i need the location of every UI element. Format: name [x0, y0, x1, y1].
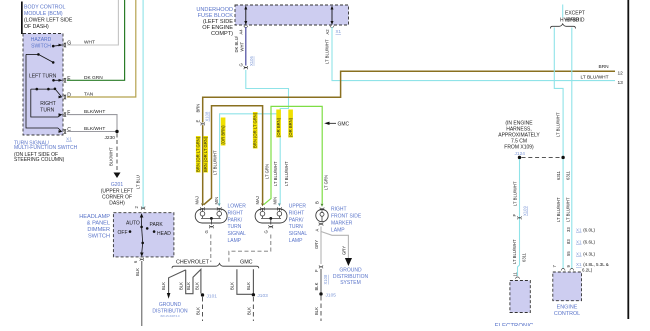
svg-text:& PANEL: & PANEL [87, 221, 110, 227]
svg-text:FRONT SIDE: FRONT SIDE [331, 214, 362, 220]
wire DK GRN from pin E [67, 0, 125, 81]
right turn contact [31, 88, 62, 114]
svg-text:J230: J230 [105, 135, 116, 141]
lamp E1 pin MIN [214, 197, 221, 211]
page border right [627, 0, 629, 319]
electronic brake control module U2 box [510, 281, 530, 313]
svg-text:WHT: WHT [84, 40, 95, 46]
svg-text:LOWER: LOWER [228, 204, 247, 210]
svg-text:COMPT): COMPT) [211, 31, 233, 37]
lamp E3 pin A [315, 222, 324, 231]
inline connector X106 pin G [239, 56, 254, 70]
wire label LT BLU/WHT (lamp1 MIN) [212, 150, 217, 175]
svg-text:SWITCH: SWITCH [31, 44, 51, 50]
wire BLK from headlamp switch to bottom [135, 261, 142, 326]
svg-text:G: G [264, 230, 269, 233]
svg-text:CONTROL: CONTROL [554, 311, 580, 317]
svg-text:BRN: BRN [195, 104, 200, 113]
svg-text:6311: 6311 [522, 252, 527, 262]
svg-text:BLK: BLK [246, 282, 251, 290]
svg-text:MULTI-FUNCTION SWITCH: MULTI-FUNCTION SWITCH [14, 145, 78, 151]
svg-text:RIGHT: RIGHT [331, 207, 347, 213]
wire WHT from pin G to BCM [67, 0, 119, 46]
pin G [59, 41, 72, 48]
svg-text:GRY: GRY [314, 240, 319, 249]
engine control module U1 box [553, 272, 582, 301]
svg-text:TURN: TURN [40, 108, 54, 114]
hazard switch label [31, 37, 52, 50]
svg-text:11: 11 [513, 271, 518, 276]
svg-text:RIGHT: RIGHT [228, 210, 244, 216]
ground chain GMC wires BLK [230, 269, 254, 294]
BCM label [24, 5, 73, 31]
svg-text:X108: X108 [323, 274, 328, 284]
svg-text:BLK/WHT: BLK/WHT [84, 109, 105, 115]
svg-text:BODY CONTROL: BODY CONTROL [24, 5, 66, 11]
lamp E2 pin MIN [272, 197, 281, 211]
pin E [59, 76, 72, 83]
fuse block caption [196, 7, 233, 37]
svg-text:(OR BRN): (OR BRN) [276, 117, 281, 137]
svg-text:RIGHT: RIGHT [289, 210, 305, 216]
ground distribution system caption (right) [333, 268, 369, 287]
ECM pin row 83 X1 (6.6L) [566, 239, 596, 245]
svg-text:OF DASH): OF DASH) [24, 24, 49, 30]
wire label (OR BRN) (lamp1 MIN) [220, 118, 225, 146]
wire LT BLU/WHT from X106 to lamps [246, 70, 289, 203]
svg-text:BRN (OR LT GRN): BRN (OR LT GRN) [196, 136, 201, 172]
hazard switch contacts [26, 45, 62, 64]
svg-text:MAJ: MAJ [194, 196, 199, 204]
svg-text:LT BLU/WHT: LT BLU/WHT [512, 239, 517, 264]
svg-text:BLK: BLK [135, 268, 140, 276]
GMC arrow callout [324, 121, 349, 127]
splice J124 [518, 156, 565, 159]
svg-text:X109: X109 [523, 206, 528, 216]
wire DK BLU/WHT from A4 [234, 27, 246, 66]
svg-text:X1: X1 [576, 240, 582, 245]
wire LT BLU/WHT J124 branch to EBCM pin 11 [518, 159, 520, 276]
pin F [59, 110, 71, 117]
svg-text:LAMP: LAMP [289, 238, 303, 244]
svg-text:13: 13 [618, 80, 624, 86]
wire LT BLU from top to headlamp switch [136, 0, 144, 208]
svg-text:X106: X106 [249, 56, 254, 66]
svg-text:X108: X108 [204, 111, 209, 121]
wire BLK/WHT from pin C [67, 126, 117, 132]
inline connector X108 pin F on GRY/BLK wire [314, 265, 328, 284]
turn signal / multifunction switch S1 box [23, 34, 63, 136]
svg-text:(OR BRN): (OR BRN) [288, 117, 293, 137]
svg-text:X1: X1 [336, 29, 342, 34]
svg-text:RIGHT: RIGHT [40, 101, 56, 107]
svg-text:GMC: GMC [338, 121, 350, 127]
svg-text:(6.0L): (6.0L) [583, 228, 595, 233]
lamp E1 caption [228, 204, 247, 245]
svg-text:STEERING COLUMN): STEERING COLUMN) [14, 157, 65, 163]
svg-text:G: G [67, 41, 71, 47]
lamp E2 caption [289, 204, 308, 245]
headlamp switch pin 2 [134, 206, 145, 210]
svg-text:DK BLU/: DK BLU/ [234, 35, 239, 52]
svg-text:MARKER: MARKER [331, 221, 353, 227]
svg-text:ENGINE: ENGINE [557, 305, 578, 311]
svg-text:BLK/WHT: BLK/WHT [84, 126, 105, 132]
svg-text:LT BLU/WHT: LT BLU/WHT [581, 75, 609, 81]
svg-text:HEADLAMP: HEADLAMP [79, 214, 110, 220]
svg-text:X1: X1 [576, 228, 582, 233]
svg-text:X1: X1 [66, 137, 72, 143]
svg-text:MODULE (BCM): MODULE (BCM) [24, 11, 63, 17]
svg-text:(LOWER LEFT SIDE: (LOWER LEFT SIDE [24, 18, 73, 24]
svg-text:LT GRN: LT GRN [324, 175, 329, 190]
svg-text:A4: A4 [239, 29, 244, 35]
svg-text:J103: J103 [257, 293, 268, 299]
svg-text:LT GRN: LT GRN [264, 164, 269, 179]
wire BLK/WHT to G201 (dashed) [109, 134, 118, 172]
EBCM caption (cut at page bottom) [495, 324, 534, 330]
svg-text:DK GRN: DK GRN [84, 75, 103, 81]
svg-text:UPPER: UPPER [289, 204, 307, 210]
inline connector X109 pin F on EBCM branch [512, 206, 528, 220]
svg-text:(4.3L): (4.3L) [583, 252, 595, 257]
lamp E2 pin MAJ [255, 196, 265, 210]
svg-text:DISTRIBUTION: DISTRIBUTION [333, 274, 369, 280]
left turn contact [29, 74, 62, 82]
wire BRN main feed to rear (pin 12) [203, 64, 623, 203]
svg-text:G: G [204, 230, 209, 233]
svg-text:BLK: BLK [161, 282, 166, 290]
wire LT BLU/WHT J124 continue to pin 7 [562, 159, 564, 269]
svg-text:LEFT TURN: LEFT TURN [29, 74, 57, 80]
ECM pin row 55 X1 (4.3L) [566, 251, 596, 257]
wire GRY branch to ground distribution [321, 232, 352, 267]
svg-text:LT BLU/WHT: LT BLU/WHT [555, 112, 560, 137]
splice J103 [252, 293, 268, 299]
wire labels 6311 pair [556, 170, 571, 180]
ECM pin row 33 X1 (6.0L) [566, 227, 596, 233]
wire labels LT BLU/WHT pair [556, 197, 571, 222]
svg-text:6.2L): 6.2L) [582, 268, 593, 273]
svg-text:BRN (OR LT GRN): BRN (OR LT GRN) [203, 136, 208, 172]
svg-text:BLK: BLK [246, 307, 251, 315]
wire label BRN (OR LT GRN) col1 [196, 136, 201, 173]
ECM pins 7 and 9 connectors [561, 269, 574, 271]
wire TAN from pin D [67, 0, 136, 98]
wire GRY from lamp E3 pin A [314, 227, 321, 265]
svg-text:J101: J101 [207, 293, 218, 299]
ground G201 [101, 173, 134, 207]
svg-text:83: 83 [566, 239, 571, 244]
svg-text:MAJ: MAJ [255, 196, 260, 204]
svg-text:G201: G201 [111, 182, 123, 188]
wire label (OR BRN) (lamp2 MIN b) [288, 110, 293, 138]
svg-text:LT BLU/WHT: LT BLU/WHT [556, 197, 561, 222]
connector X1 label [66, 137, 72, 143]
svg-text:GRY: GRY [341, 246, 346, 255]
svg-text:BLK: BLK [178, 282, 183, 290]
wire LT BLU/WHT hybrid branch to J124 [554, 28, 563, 157]
ECM caption [554, 305, 580, 317]
svg-text:BRN: BRN [599, 64, 610, 70]
svg-text:OFF: OFF [118, 230, 128, 236]
svg-text:PARK/: PARK/ [289, 217, 304, 223]
underhood fuse block box [235, 5, 349, 25]
svg-text:BLK/WHT: BLK/WHT [109, 147, 114, 166]
svg-text:6311: 6311 [556, 170, 561, 180]
svg-text:G: G [239, 63, 244, 66]
svg-text:HYBRID: HYBRID [566, 18, 585, 24]
splice J230 [105, 130, 119, 141]
wire label LT BLU/WHT (lamp2 MIN a) [273, 161, 278, 186]
svg-text:CHEVROLET: CHEVROLET [176, 259, 210, 265]
ECM pin row 7 9 X1 (4.8L 5.3L 6.2L) [552, 262, 609, 273]
switch caption [14, 140, 78, 163]
svg-text:MIN: MIN [272, 197, 277, 205]
svg-text:LT BLU/WHT: LT BLU/WHT [512, 181, 517, 206]
wire stub from top to hybrid callout [562, 5, 564, 18]
svg-text:BLK: BLK [194, 282, 199, 290]
svg-text:LT BLU/WHT: LT BLU/WHT [212, 150, 217, 175]
svg-text:WHT: WHT [239, 42, 244, 52]
ground chain CHEVROLET wires BLK [161, 269, 201, 299]
svg-text:BLK: BLK [186, 282, 191, 290]
svg-text:LAMP: LAMP [331, 227, 345, 233]
svg-text:DASH): DASH) [109, 201, 125, 207]
svg-text:MIN: MIN [214, 197, 219, 205]
headlamp switch contacts [118, 213, 172, 256]
svg-text:EXCEPT: EXCEPT [565, 11, 585, 17]
svg-text:HAZARD: HAZARD [31, 37, 52, 43]
wire BLK below J105 (dashed off page) [314, 296, 321, 321]
wire dashed ground lamp E1 pin G [210, 235, 212, 263]
svg-text:X1: X1 [576, 252, 582, 257]
svg-text:A2: A2 [325, 29, 330, 35]
wire BLK below X108 to splice J105 [314, 269, 336, 298]
svg-text:55: 55 [566, 251, 571, 256]
svg-text:LT BLU: LT BLU [136, 175, 141, 189]
wire LT BLU/WHT except-hybrid branch [571, 28, 573, 270]
splice J101 [201, 293, 217, 299]
wire BLK below J101 (dashed) [196, 297, 203, 321]
lamp E1 pin G [204, 225, 213, 234]
wire LT GRN alternative (lamp2 MAJ to marker lamp B) [264, 106, 329, 204]
svg-text:33: 33 [566, 227, 571, 232]
hybrid callout texts [560, 11, 585, 24]
brand bracket CHEVROLET / GMC [172, 259, 259, 268]
svg-text:6311: 6311 [566, 170, 571, 180]
pin C [59, 127, 72, 134]
headlamp &amp; panel dimmer switch S2 box [113, 213, 173, 257]
svg-text:GROUND: GROUND [339, 268, 362, 274]
lamp E3 caption [331, 207, 362, 234]
svg-text:SIGNAL: SIGNAL [228, 231, 247, 237]
wire LT BLU/WHT from A2 to rear lamps (pin 13) [325, 27, 624, 86]
fuse element pin A4 [239, 6, 248, 35]
svg-text:BRN (OR LT GRN): BRN (OR LT GRN) [253, 112, 258, 148]
wire dashed ground lamp E2 pin G [229, 235, 271, 263]
svg-text:GMC: GMC [240, 259, 253, 265]
svg-text:DIMMER: DIMMER [87, 227, 110, 233]
svg-text:8W-15-IN0T4.0: 8W-15-IN0T4.0 [160, 314, 180, 318]
switch internal rail to pin C [26, 54, 62, 131]
ground distribution caption (left) [152, 302, 188, 318]
lamp E2 pin G [264, 225, 273, 234]
lamp E3 right front side marker lamp [316, 209, 328, 221]
wire LT BLU/WHT jumper lamp2 MIN to lamp1 MIN [220, 114, 281, 203]
lamp E1 pin MAJ [194, 196, 204, 210]
page border left (BCM box edge) [21, 2, 23, 35]
svg-text:TURN: TURN [289, 224, 303, 230]
lamp E3 pin B [315, 201, 325, 211]
svg-text:SWITCH: SWITCH [88, 234, 110, 240]
pin D [59, 93, 72, 100]
svg-text:LT BLU/WHT: LT BLU/WHT [273, 161, 278, 186]
svg-text:BLK: BLK [314, 307, 319, 315]
engine harness note [498, 121, 540, 157]
EBCM pin 11 [513, 271, 520, 278]
headlamp switch caption [79, 214, 110, 240]
wire label BRN (OR LT GRN) col2 [203, 136, 208, 173]
svg-text:F: F [314, 269, 319, 272]
svg-text:LT BLU/WHT: LT BLU/WHT [325, 39, 330, 64]
svg-text:(OR BRN): (OR BRN) [220, 125, 225, 145]
svg-text:12: 12 [618, 70, 624, 76]
svg-text:SYSTEM: SYSTEM [340, 280, 361, 286]
wire labels EBCM branch [512, 181, 527, 264]
wire label BRN (OR LT GRN) lamp2 [253, 112, 258, 149]
svg-text:FROM X109): FROM X109) [504, 145, 534, 151]
svg-text:F: F [67, 110, 70, 116]
svg-text:TAN: TAN [84, 92, 94, 98]
brace hybrid alternatives [550, 24, 575, 29]
svg-text:BLK: BLK [196, 307, 201, 315]
wire label (OR BRN) (lamp2 MIN a) [276, 110, 281, 138]
svg-text:SIGNAL: SIGNAL [289, 231, 308, 237]
svg-text:BLK: BLK [314, 282, 319, 290]
svg-text:PARK/: PARK/ [228, 217, 243, 223]
svg-text:BLK: BLK [230, 282, 235, 290]
svg-text:X1: X1 [576, 262, 582, 267]
svg-text:LAMP: LAMP [228, 238, 242, 244]
headlamp switch pin 6 [133, 258, 144, 263]
svg-text:J105: J105 [326, 292, 337, 298]
svg-text:AUTO: AUTO [126, 221, 140, 227]
lamp E1 lower right park/turn signal lamp [195, 209, 227, 225]
svg-text:TURN: TURN [228, 224, 242, 230]
svg-text:E: E [195, 120, 200, 123]
wire BRN jumper lamp1 MAJ to lamp2 MAJ [204, 106, 263, 205]
inline connector X108 pin E on BRN wire [195, 104, 209, 126]
svg-text:LT BLU/WHT: LT BLU/WHT [566, 197, 571, 222]
wire BLK/WHT from pin F [67, 109, 117, 131]
svg-text:(6.6L): (6.6L) [583, 240, 595, 245]
svg-text:A: A [315, 229, 320, 232]
svg-text:B: B [315, 201, 320, 204]
lamp E2 upper right park/turn signal lamp [255, 209, 287, 225]
svg-text:LT BLU/WHT: LT BLU/WHT [284, 161, 289, 186]
svg-text:C: C [67, 127, 71, 133]
svg-text:GROUND: GROUND [159, 302, 182, 308]
wire label LT BLU/WHT (lamp2 MIN b) [284, 161, 289, 186]
svg-text:(4.8L, 5.3L &: (4.8L, 5.3L & [583, 262, 609, 267]
svg-text:F: F [512, 214, 517, 217]
svg-text:PARK: PARK [150, 222, 164, 228]
fuse element pin A2 [325, 6, 342, 35]
wire BLK below J103 (dashed) [246, 297, 253, 321]
svg-text:HEAD: HEAD [157, 231, 171, 237]
